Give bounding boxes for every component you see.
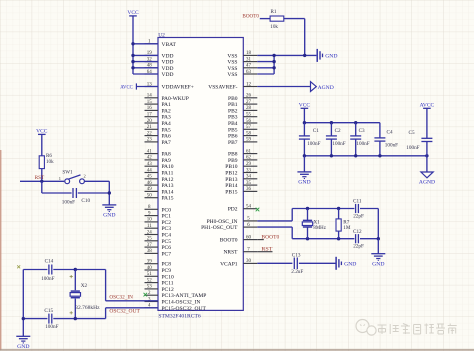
pin 4 PC15-OSC32_OUT <box>145 304 207 312</box>
junction cap bank bottom rail <box>303 154 429 157</box>
pin 39 PC8 <box>145 260 172 268</box>
power symbol VCC (top) <box>127 10 139 16</box>
power port AVCC at pin 13 <box>120 83 158 90</box>
pin 8 PC0 <box>145 205 172 213</box>
svg-text:PB12: PB12 <box>225 171 237 177</box>
svg-text:51: 51 <box>147 272 153 277</box>
capacitor C2 100nF <box>326 123 346 156</box>
svg-text:56: 56 <box>246 119 252 124</box>
svg-text:VDD: VDD <box>162 53 174 59</box>
junction crystal left rail <box>22 317 25 320</box>
pin 55 PB3 <box>228 113 257 121</box>
svg-text:C4: C4 <box>387 130 393 136</box>
pin 17 PA3 <box>145 113 172 121</box>
svg-text:17: 17 <box>147 113 153 118</box>
capacitor C12 22pF <box>353 229 364 250</box>
svg-text:PC14-OSC32_IN: PC14-OSC32_IN <box>162 300 201 306</box>
pin 1 VBAT <box>145 40 177 48</box>
pin 26 PB0 <box>228 94 257 102</box>
svg-text:C2: C2 <box>335 128 341 134</box>
svg-text:27: 27 <box>246 100 252 105</box>
svg-text:C10: C10 <box>81 198 90 204</box>
svg-text:STM32F401RCT6: STM32F401RCT6 <box>158 314 200 320</box>
pin 28 PB2 <box>228 106 257 114</box>
svg-text:PB9: PB9 <box>228 158 238 164</box>
pin 33 PB12 <box>225 168 257 176</box>
svg-text:PB8: PB8 <box>228 152 238 158</box>
pin 23 PA7 <box>145 138 172 146</box>
svg-text:29: 29 <box>246 162 252 167</box>
resistor R1 <box>270 9 284 30</box>
svg-text:PC6: PC6 <box>162 245 172 251</box>
svg-text:PC9: PC9 <box>162 268 172 274</box>
svg-text:PA15: PA15 <box>162 196 174 202</box>
svg-text:PH1-OSC_OUT: PH1-OSC_OUT <box>201 225 238 231</box>
svg-text:PA9: PA9 <box>162 158 172 164</box>
svg-text:37: 37 <box>147 243 153 248</box>
wire RST node <box>20 180 64 182</box>
wire C5 to AGND <box>426 156 428 172</box>
svg-text:PB6: PB6 <box>228 134 238 140</box>
pin 10 PC2 <box>145 218 172 226</box>
net label RST (reset node) <box>35 175 45 181</box>
junction VSS bus <box>272 54 306 70</box>
wire SW1 to GND branch <box>84 181 109 205</box>
svg-text:35: 35 <box>246 181 252 186</box>
svg-text:PB10: PB10 <box>225 164 237 170</box>
svg-text:BOOT0: BOOT0 <box>261 234 279 240</box>
svg-text:21: 21 <box>147 125 153 130</box>
svg-text:46: 46 <box>147 181 153 186</box>
svg-text:23: 23 <box>147 138 153 143</box>
pin 15 PA1 <box>145 100 172 108</box>
svg-text:PC1: PC1 <box>162 214 172 220</box>
svg-text:PC10: PC10 <box>162 274 174 280</box>
wire R1 to GND rail <box>284 19 305 56</box>
svg-text:PC2: PC2 <box>162 220 172 226</box>
pin 38 PC7 <box>145 249 172 257</box>
svg-text:PA13: PA13 <box>162 183 174 189</box>
wire C15 bottom rail <box>23 318 47 320</box>
pin 40 PC9 <box>145 266 172 274</box>
capacitor C10 100nF <box>62 188 110 205</box>
junction crystal right rail <box>377 237 380 240</box>
svg-text:AVCC: AVCC <box>420 103 435 109</box>
svg-text:VBAT: VBAT <box>162 42 177 48</box>
pin 62 PB9 <box>228 156 257 164</box>
svg-text:PC7: PC7 <box>162 251 172 257</box>
svg-text:X2: X2 <box>81 283 88 289</box>
svg-text:26: 26 <box>246 94 252 99</box>
svg-text:52: 52 <box>147 278 153 283</box>
svg-text:OSC32_IN: OSC32_IN <box>109 295 133 301</box>
capacitor C11 22pF <box>353 198 364 219</box>
svg-text:C11: C11 <box>353 198 362 204</box>
svg-text:31: 31 <box>246 57 252 62</box>
pin 11 PC3 <box>145 224 172 232</box>
pin 50 PA15 <box>145 194 174 202</box>
pin 41 PA8 <box>145 149 172 157</box>
ground GND (VSS pins) <box>317 49 337 62</box>
pin 7 NRST <box>223 248 257 256</box>
svg-text:10k: 10k <box>270 24 278 30</box>
wire C11 to right rail <box>360 209 378 239</box>
pin 29 PB10 <box>225 162 257 170</box>
svg-text:54: 54 <box>246 205 252 210</box>
svg-text:PA0-WKUP: PA0-WKUP <box>162 96 189 102</box>
pin 56 PB4 <box>228 119 257 127</box>
svg-text:12: 12 <box>246 82 252 87</box>
junction VCC rail <box>131 42 134 69</box>
svg-text:24: 24 <box>147 230 153 235</box>
pin 42 PA9 <box>145 156 172 164</box>
svg-text:50: 50 <box>147 194 153 199</box>
svg-text:PA1: PA1 <box>162 102 172 108</box>
svg-text:R6: R6 <box>46 153 52 159</box>
svg-text:22: 22 <box>147 131 153 136</box>
IC U2 STM32F401RCT6 body <box>158 32 243 319</box>
pin 53 PC12 <box>145 285 174 293</box>
svg-text:PB7: PB7 <box>228 140 238 146</box>
wire OSC32_IN to PC14 <box>106 300 158 302</box>
svg-text:10k: 10k <box>46 159 54 165</box>
svg-text:PA14: PA14 <box>162 189 174 195</box>
pin 14 PA0-WKUP <box>145 94 189 102</box>
svg-text:PB15: PB15 <box>225 189 237 195</box>
svg-text:44: 44 <box>147 168 153 173</box>
svg-text:GND: GND <box>372 261 384 267</box>
pin 30 VCAP1 <box>220 259 257 267</box>
svg-text:NRST: NRST <box>223 250 238 256</box>
pin 52 PC11 <box>145 278 174 286</box>
svg-text:100nF: 100nF <box>385 143 398 149</box>
junction RST node <box>40 180 43 183</box>
svg-text:38: 38 <box>147 249 153 254</box>
svg-text:2: 2 <box>83 174 85 179</box>
pin 61 PB8 <box>228 149 257 157</box>
crystal X1 8MHz <box>302 209 326 239</box>
pin 3 PC14-OSC32_IN <box>145 297 201 305</box>
wire VSSAVREF- to AGND <box>257 86 310 88</box>
pin 19 VDD <box>145 51 174 59</box>
capacitor C15 100nF <box>44 308 58 330</box>
wire PH1-OSC_OUT to crystal network <box>257 227 292 239</box>
pin 34 PB13 <box>225 175 257 183</box>
svg-text:PC3: PC3 <box>162 226 172 232</box>
pin 5 PH0-OSC_IN <box>207 217 258 225</box>
svg-text:PB4: PB4 <box>228 121 238 127</box>
svg-text:63: 63 <box>246 70 252 75</box>
svg-text:PA4: PA4 <box>162 121 172 127</box>
svg-text:PH0-OSC_IN: PH0-OSC_IN <box>207 219 238 225</box>
capacitor C5 100nF <box>406 108 432 156</box>
no-ERC marker (PD2) <box>256 208 260 212</box>
svg-text:VSS: VSS <box>227 60 237 66</box>
svg-text:VCC: VCC <box>36 129 48 135</box>
wire crystal left rail to GND <box>22 270 24 337</box>
svg-text:VCC: VCC <box>299 103 311 109</box>
svg-text:59: 59 <box>246 138 252 143</box>
capacitor C14 100nF <box>41 258 54 282</box>
svg-text:PC4: PC4 <box>162 233 172 239</box>
svg-text:C15: C15 <box>44 308 53 314</box>
pin 24 PC4 <box>145 230 172 238</box>
pin 63 VSS <box>227 70 257 78</box>
ground AGND (bottom right) <box>419 172 435 185</box>
pin 51 PC10 <box>145 272 174 280</box>
svg-text:OSC32_OUT: OSC32_OUT <box>109 308 140 314</box>
pin 12 VSSAVREF- <box>208 82 257 90</box>
svg-text:PC11: PC11 <box>162 281 174 287</box>
watermark <box>356 320 457 336</box>
crystal X2 32.768kHz <box>70 270 100 319</box>
svg-text:47: 47 <box>246 64 252 69</box>
ground GND (crystal) <box>16 336 30 350</box>
capacitor C13 2.2uF <box>291 253 303 276</box>
svg-text:PB0: PB0 <box>228 96 238 102</box>
svg-text:VDD: VDD <box>162 60 174 66</box>
pin 64 VDD <box>145 70 174 78</box>
wire RST node to C10 <box>42 181 72 193</box>
pin 9 PC1 <box>145 211 172 219</box>
svg-text:10: 10 <box>147 218 153 223</box>
junction crystal rails <box>306 207 341 241</box>
wire C14 to X2 top / OSC32_IN corner <box>53 270 105 301</box>
svg-text:AVCC: AVCC <box>120 85 133 91</box>
power symbol VCC (reset) <box>36 129 48 135</box>
pin 20 PA4 <box>145 119 172 127</box>
svg-text:U2: U2 <box>158 32 165 38</box>
svg-text:VDD: VDD <box>162 72 174 78</box>
pin 54 PD2 <box>228 205 258 213</box>
svg-text:34: 34 <box>246 175 252 180</box>
net label BOOT0 (top) <box>242 14 259 20</box>
svg-text:VCC: VCC <box>127 10 139 16</box>
pin 36 PB15 <box>225 187 257 195</box>
svg-text:VCAP1: VCAP1 <box>220 261 238 267</box>
svg-text:BOOT0: BOOT0 <box>242 14 259 20</box>
junction X2 top <box>74 268 77 271</box>
pin marker (X2 pin 1) <box>70 275 73 278</box>
junction X2 bottom <box>74 317 77 320</box>
pin 13 VDDAVREF+ <box>145 82 194 90</box>
svg-text:43: 43 <box>147 162 153 167</box>
svg-text:PB1: PB1 <box>228 102 238 108</box>
pin 43 PA10 <box>145 162 174 170</box>
svg-text:45: 45 <box>147 175 153 180</box>
svg-text:100nF: 100nF <box>41 276 54 282</box>
capacitor C4 100nF <box>374 123 398 156</box>
svg-text:32.768kHz: 32.768kHz <box>75 305 100 311</box>
svg-text:PA8: PA8 <box>162 152 172 158</box>
svg-text:RST: RST <box>261 247 273 253</box>
svg-text:VSS: VSS <box>227 66 237 72</box>
wire right rail to GND <box>377 239 379 254</box>
svg-text:BOOT0: BOOT0 <box>220 238 238 244</box>
svg-text:100nF: 100nF <box>62 199 75 205</box>
wire crystal top rail <box>292 208 354 210</box>
pin 47 VSS <box>227 64 257 72</box>
pin 16 PA2 <box>145 106 172 114</box>
svg-text:28: 28 <box>246 106 252 111</box>
svg-text:PC0: PC0 <box>162 207 172 213</box>
svg-text:25: 25 <box>147 237 153 242</box>
wire C13 to GND <box>299 262 336 264</box>
wire VCC to cap bank top rail <box>304 108 380 122</box>
svg-text:20: 20 <box>147 119 153 124</box>
pin 45 PA12 <box>145 175 174 183</box>
ground GND (VCAP1) <box>336 257 356 270</box>
svg-text:AGND: AGND <box>318 85 334 91</box>
net label RST (pin 7) <box>257 247 273 253</box>
svg-text:PA5: PA5 <box>162 127 172 133</box>
svg-text:PB13: PB13 <box>225 177 237 183</box>
svg-text:11: 11 <box>147 224 152 229</box>
pin 22 PA6 <box>145 131 172 139</box>
svg-text:PA6: PA6 <box>162 134 172 140</box>
svg-text:C5: C5 <box>409 130 415 136</box>
svg-text:22pF: 22pF <box>353 244 364 250</box>
wire C14 top rail <box>23 269 47 271</box>
svg-text:SW1: SW1 <box>62 170 73 176</box>
svg-text:100nF: 100nF <box>356 141 369 147</box>
svg-text:AGND: AGND <box>419 179 435 185</box>
svg-text:GND: GND <box>325 54 337 60</box>
pin 44 PA11 <box>145 168 174 176</box>
svg-text:VSSAVREF-: VSSAVREF- <box>208 85 237 91</box>
svg-text:PB14: PB14 <box>225 183 237 189</box>
svg-text:PD2: PD2 <box>228 207 238 213</box>
resistor R6 <box>39 153 54 169</box>
svg-text:100nF: 100nF <box>406 145 419 151</box>
net label OSC32_OUT <box>109 308 140 314</box>
pin 59 PB7 <box>228 138 257 146</box>
wire BOOT0 to R1 <box>260 18 270 20</box>
ground GND (crystal X1) <box>371 254 385 268</box>
wire VCAP1 to C13 <box>257 262 292 264</box>
svg-text:C14: C14 <box>45 258 54 264</box>
pin 49 PA14 <box>145 187 174 195</box>
pin 25 PC5 <box>145 237 172 245</box>
power symbol VCC (cap bank) <box>299 103 311 109</box>
wire VSS pins to GND <box>257 55 316 74</box>
svg-text:PA12: PA12 <box>162 177 174 183</box>
svg-text:PA3: PA3 <box>162 115 172 121</box>
svg-text:1: 1 <box>59 176 61 181</box>
svg-text:60: 60 <box>246 235 252 240</box>
pin 58 PB6 <box>228 131 257 139</box>
svg-text:100nF: 100nF <box>332 141 345 147</box>
pin 48 VDD <box>145 64 174 72</box>
wire R6 to RST node <box>41 169 43 182</box>
svg-text:33: 33 <box>246 168 252 173</box>
svg-text:57: 57 <box>246 125 252 130</box>
svg-text:GND: GND <box>298 180 310 186</box>
svg-text:PB5: PB5 <box>228 127 238 133</box>
svg-text:16: 16 <box>147 106 153 111</box>
net label BOOT0 (pin 60) <box>257 234 279 240</box>
wire crystal bottom rail <box>292 238 354 240</box>
svg-text:100nF: 100nF <box>45 324 58 330</box>
svg-text:RST: RST <box>35 175 45 181</box>
pin 57 PB5 <box>228 125 257 133</box>
svg-text:GND: GND <box>344 262 356 268</box>
pin 32 VDD <box>145 57 174 65</box>
svg-text:18: 18 <box>246 51 252 56</box>
wire bottom rail to GND <box>303 156 305 172</box>
svg-text:PC13-ANTI_TAMP: PC13-ANTI_TAMP <box>162 293 207 299</box>
junction cap bank top rail <box>303 121 358 124</box>
svg-text:1M: 1M <box>343 225 351 231</box>
capacitor C1 100nF <box>299 123 321 156</box>
pin marker (X2 pin 2) <box>70 311 73 314</box>
resistor R7 1M <box>336 209 351 239</box>
wire OSC32_OUT to PC15 <box>106 307 158 309</box>
ground GND (reset) <box>102 205 116 219</box>
wire C15 to X2 bottom / OSC32_OUT corner <box>53 308 105 319</box>
svg-text:VDDAVREF+: VDDAVREF+ <box>162 85 194 91</box>
pin 18 VSS <box>227 51 257 59</box>
svg-text:58: 58 <box>246 131 252 136</box>
svg-text:42: 42 <box>147 156 153 161</box>
svg-text:GND: GND <box>17 344 29 350</box>
svg-text:GND: GND <box>103 213 115 219</box>
ground AGND (pin 12) <box>311 82 334 92</box>
svg-text:C1: C1 <box>313 128 319 134</box>
svg-text:2.2uF: 2.2uF <box>291 269 303 275</box>
junction C10 right <box>108 191 111 194</box>
svg-text:22pF: 22pF <box>353 213 364 219</box>
svg-text:53: 53 <box>147 285 153 290</box>
pin 46 PA13 <box>145 181 174 189</box>
svg-text:PA2: PA2 <box>162 108 172 114</box>
wire PH0-OSC_IN to crystal network <box>257 209 292 221</box>
net label OSC32_IN <box>109 295 133 301</box>
no-ERC marker (crystal rail) <box>17 265 20 268</box>
pin 6 PH1-OSC_OUT <box>201 223 257 231</box>
pin 60 BOOT0 <box>220 235 258 243</box>
power symbol AVCC <box>420 103 435 109</box>
wire VCC rail to VBAT and VDD pins <box>133 16 158 74</box>
svg-text:15: 15 <box>147 100 153 105</box>
svg-text:100nF: 100nF <box>307 141 320 147</box>
svg-text:PC5: PC5 <box>162 239 172 245</box>
svg-text:C12: C12 <box>353 229 362 235</box>
svg-text:55: 55 <box>246 113 252 118</box>
svg-text:C3: C3 <box>359 128 365 134</box>
pin 2 PC13-ANTI_TAMP <box>145 291 207 299</box>
svg-text:41: 41 <box>147 149 153 154</box>
wire C12 to right rail junction <box>360 238 378 240</box>
no-ERC marker (PC13) <box>144 293 148 297</box>
svg-text:36: 36 <box>246 187 252 192</box>
svg-text:PA11: PA11 <box>162 171 174 177</box>
pin 35 PB14 <box>225 181 257 189</box>
svg-text:C13: C13 <box>292 253 301 259</box>
svg-text:VDD: VDD <box>162 66 174 72</box>
pin 37 PC6 <box>145 243 172 251</box>
wire VCC to R6 <box>41 134 43 155</box>
pin 27 PB1 <box>228 100 257 108</box>
svg-text:PB3: PB3 <box>228 115 238 121</box>
svg-text:PC15-OSC32_OUT: PC15-OSC32_OUT <box>162 306 207 312</box>
svg-text:VSS: VSS <box>227 72 237 78</box>
ground GND (cap bank) <box>297 172 311 186</box>
svg-text:39: 39 <box>147 260 153 265</box>
wire cap bank bottom rail <box>304 155 427 157</box>
pin 21 PA5 <box>145 125 172 133</box>
svg-text:PC8: PC8 <box>162 262 172 268</box>
